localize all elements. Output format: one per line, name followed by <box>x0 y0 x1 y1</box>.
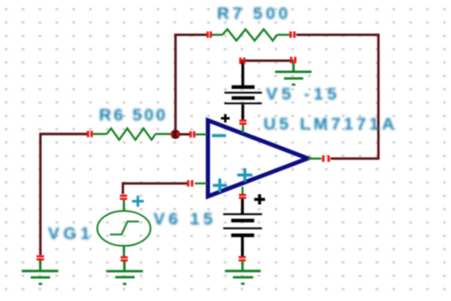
pin marks junction <box>171 132 179 136</box>
op-amp U5 triangle <box>208 120 308 196</box>
pin marks V5 corner <box>239 58 245 64</box>
op-amp noninverting input stub <box>195 182 207 184</box>
op-amp top supply stub <box>242 125 244 134</box>
pin marks V6 top <box>239 194 246 199</box>
pin marks inverting input <box>189 131 195 137</box>
pin marks R7 right <box>289 31 295 37</box>
op-amp inverting input stub <box>195 133 207 135</box>
svg-text:U5 LM7171A: U5 LM7171A <box>264 115 398 134</box>
pin marks V6 bottom <box>239 256 246 261</box>
ground left <box>22 260 59 284</box>
wire V5 top to ground <box>242 60 294 62</box>
wire VG1 to noninverting input <box>123 183 187 194</box>
battery V6 <box>223 198 262 256</box>
op-amp plus marker input <box>213 179 227 193</box>
pin marks output <box>322 155 330 161</box>
battery V5 plus sign <box>221 114 230 122</box>
pin marks noninverting input <box>187 180 193 186</box>
pin marks VG1 bottom <box>121 256 128 261</box>
op-amp bottom supply stub <box>242 187 244 195</box>
wire junction to inverting input <box>176 133 190 135</box>
node junction <box>171 130 180 139</box>
ground V6 <box>225 262 261 284</box>
svg-text:R6 500: R6 500 <box>99 105 168 124</box>
battery V6 plus sign <box>254 194 265 204</box>
pin marks R6 left <box>87 131 93 137</box>
pin marks V5 bottom <box>239 120 246 125</box>
wire input left: R6 left end to left column down to ground <box>40 134 87 255</box>
resistor R6 <box>93 128 171 139</box>
ground VG1 <box>106 261 143 284</box>
resistor R7 <box>212 29 290 40</box>
op-amp plus marker supply <box>237 168 252 182</box>
svg-text:R7 500: R7 500 <box>217 4 291 23</box>
wire R7 right to output column <box>296 35 378 159</box>
pin marks VG1 top <box>120 195 127 200</box>
op-amp output stub <box>308 158 321 160</box>
source VG1 plus sign <box>132 196 144 207</box>
ground V5 <box>275 62 311 85</box>
battery V5 <box>224 62 262 120</box>
source VG1 <box>97 200 150 257</box>
svg-text:V6 15: V6 15 <box>154 210 217 229</box>
op-amp minus marker <box>212 134 226 137</box>
wire feedback left: junction up to top, right to R7 <box>176 35 207 135</box>
svg-text:V5 -15: V5 -15 <box>266 84 341 103</box>
svg-text:VG1: VG1 <box>48 224 94 243</box>
pin marks R7 left <box>207 31 212 37</box>
pin marks ground V5 <box>290 57 296 63</box>
pin marks ground left <box>37 255 44 260</box>
